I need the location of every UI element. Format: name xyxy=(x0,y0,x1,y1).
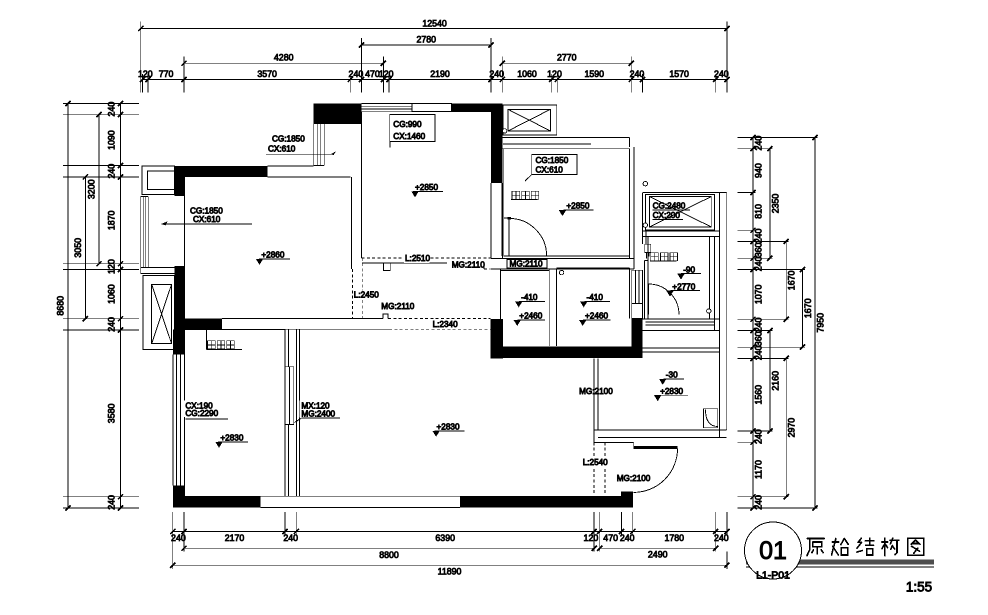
dim line left 3200 xyxy=(98,115,100,264)
wall line bath right compartment top xyxy=(557,267,630,269)
dim line left 8680 xyxy=(67,104,69,509)
door room90 xyxy=(648,284,650,315)
svg-text:240: 240 xyxy=(754,228,764,243)
wall line room30 top a xyxy=(642,347,720,349)
svg-text:240: 240 xyxy=(630,69,645,79)
svg-text:-410: -410 xyxy=(521,293,538,302)
svg-text:240: 240 xyxy=(714,69,729,79)
window opening box bathroom east xyxy=(632,303,643,318)
svg-text:6390: 6390 xyxy=(435,533,455,543)
title bar xyxy=(746,560,934,565)
svg-text:2490: 2490 xyxy=(648,550,668,560)
dashed opening L:2340 b xyxy=(389,328,490,330)
label insulation baowenceng room90 xyxy=(651,253,659,261)
wall line living west b xyxy=(298,329,300,496)
svg-text:8680: 8680 xyxy=(56,296,66,316)
wall line bedroom2 east b lower xyxy=(288,424,290,496)
dim line top 4280 xyxy=(184,62,383,64)
svg-text:120: 120 xyxy=(379,69,394,79)
shaft box left xyxy=(143,276,175,350)
wall line platform south b xyxy=(643,236,720,238)
dim line bottom small xyxy=(173,531,727,533)
wall line bedroom3 south a xyxy=(491,257,634,259)
wall step kitchen south right xyxy=(483,262,485,269)
svg-text:CG:1850: CG:1850 xyxy=(272,135,305,144)
svg-text:L:2450: L:2450 xyxy=(354,290,379,299)
svg-text:3570: 3570 xyxy=(257,69,277,79)
wall bathroom south black xyxy=(491,346,643,358)
wall line bedroom3 top inner xyxy=(502,148,629,150)
svg-text:1670: 1670 xyxy=(803,298,813,318)
wall south black right xyxy=(460,496,633,507)
svg-text:240: 240 xyxy=(754,345,764,360)
svg-text:2350: 2350 xyxy=(770,194,780,214)
dashed corridor L:2450 a xyxy=(351,269,353,318)
wall bedroom1 south black xyxy=(175,318,222,329)
point marker xyxy=(707,309,711,313)
wall bathroom east black xyxy=(632,319,643,359)
svg-text:3200: 3200 xyxy=(87,179,97,199)
wall line kitchen south stub xyxy=(362,262,447,264)
svg-text:2190: 2190 xyxy=(430,69,450,79)
svg-text:470: 470 xyxy=(603,533,618,543)
svg-text:240: 240 xyxy=(754,495,764,510)
wall line corridor south xyxy=(185,328,390,330)
door opening box MG:2110 xyxy=(507,260,547,268)
wall line room30 top b xyxy=(642,351,720,353)
wall line bedroom3 south b xyxy=(491,268,634,270)
wall line bedroom3 east outer xyxy=(633,147,635,269)
svg-text:240: 240 xyxy=(754,136,764,151)
svg-text:240: 240 xyxy=(754,256,764,271)
dashed kitchen south opening L:2510 xyxy=(362,257,492,259)
dim line top 2780 xyxy=(362,44,492,46)
wall line room90 west inner xyxy=(647,237,649,319)
svg-text:3580: 3580 xyxy=(107,404,117,424)
svg-text:01: 01 xyxy=(759,537,787,565)
dim line top small xyxy=(143,79,727,81)
wall line bedroom1 top outer cont xyxy=(268,165,314,167)
svg-text:1870: 1870 xyxy=(107,210,117,230)
dashed kitchen south opening b xyxy=(484,268,491,270)
svg-text:CX:610: CX:610 xyxy=(193,215,221,224)
wall bedroom1 top xyxy=(175,166,268,177)
wall line kitchen east pair a xyxy=(490,183,492,258)
wall line room90 south a xyxy=(642,318,719,320)
svg-text:1670: 1670 xyxy=(787,271,797,291)
label L:2340 xyxy=(432,320,457,328)
bay window box top-left xyxy=(142,166,175,194)
wall line bedroom3 south inner xyxy=(504,255,630,257)
wall line bedroom3 west inner xyxy=(503,149,505,256)
wall line bedroom1 east xyxy=(350,177,352,269)
wall line south middle top xyxy=(261,495,461,497)
point marker xyxy=(502,129,506,133)
wall line room90 east outer xyxy=(714,237,716,319)
wall line bedroom2 west sill xyxy=(184,330,186,497)
window bay west bedroom1 xyxy=(140,197,142,268)
svg-text:CG:2480: CG:2480 xyxy=(653,201,686,210)
svg-text:1780: 1780 xyxy=(664,533,684,543)
dim line right 2970 xyxy=(785,358,787,496)
svg-text:-90: -90 xyxy=(683,265,695,274)
shaft crossed rect xyxy=(152,285,172,344)
svg-text:240: 240 xyxy=(714,533,729,543)
svg-text:240: 240 xyxy=(349,69,364,79)
svg-text:120: 120 xyxy=(584,533,599,543)
wall line kitchen east pair b xyxy=(501,183,503,258)
label MX:120 MG:2400 xyxy=(300,401,341,418)
svg-text:2780: 2780 xyxy=(417,35,437,45)
svg-text:1060: 1060 xyxy=(107,284,117,304)
svg-text:1:55: 1:55 xyxy=(906,580,932,595)
svg-text:1170: 1170 xyxy=(754,460,764,479)
window kitchen top xyxy=(362,103,413,105)
svg-text:1090: 1090 xyxy=(107,130,117,150)
svg-text:+2830: +2830 xyxy=(220,434,243,443)
label L:2540 xyxy=(582,458,607,466)
svg-text:2770: 2770 xyxy=(557,52,577,62)
dashed opening L:2340 a xyxy=(388,317,491,319)
wall kitchen top-left corner xyxy=(314,104,362,125)
svg-text:770: 770 xyxy=(159,69,174,79)
wall south black left xyxy=(173,496,261,507)
entry door jamb v xyxy=(633,442,635,446)
platform crossed box CG:2480 xyxy=(646,194,715,230)
wall line bath left compartment top xyxy=(501,270,550,272)
wall entry step xyxy=(621,491,633,496)
door bedroom3 xyxy=(504,218,509,256)
window opening box kitchen top xyxy=(412,104,452,112)
door jamb icon room90 west xyxy=(645,244,651,252)
svg-text:1590: 1590 xyxy=(585,69,605,79)
svg-text:L1-P01: L1-P01 xyxy=(756,570,790,582)
window bathroom east xyxy=(631,270,633,303)
wall line kitchen top inner xyxy=(362,111,492,113)
svg-text:CG:2290: CG:2290 xyxy=(185,409,218,418)
point marker xyxy=(559,270,563,274)
svg-text:810: 810 xyxy=(754,204,764,219)
svg-text:240: 240 xyxy=(754,429,764,444)
svg-text:12540: 12540 xyxy=(422,18,447,28)
svg-text:120: 120 xyxy=(547,69,562,79)
wall line bedroom1 west inner/sill xyxy=(184,177,186,318)
svg-text:+2850: +2850 xyxy=(415,183,438,192)
svg-text:+2830: +2830 xyxy=(437,422,460,431)
corridor dashes entry L:2540 xyxy=(593,442,595,495)
svg-text:240: 240 xyxy=(107,495,117,510)
svg-text:11890: 11890 xyxy=(438,566,462,576)
dim line bottom 8800 xyxy=(184,547,594,549)
point marker xyxy=(643,182,647,186)
wall line bath divider a xyxy=(548,268,550,346)
window kitchen west xyxy=(313,124,315,166)
wall line platform west b xyxy=(645,231,647,244)
svg-text:2160: 2160 xyxy=(770,371,780,391)
bay window box bedroom3 xyxy=(503,105,557,135)
wall bedroom1 west upper xyxy=(175,177,185,196)
wall line platform west xyxy=(642,192,644,244)
svg-text:CG:990: CG:990 xyxy=(393,120,422,129)
window bedroom2 west xyxy=(172,355,174,486)
svg-text:MG:2110: MG:2110 xyxy=(510,259,544,268)
wall line room30 west a xyxy=(593,358,595,442)
wall line bedroom3 top outer right xyxy=(557,137,630,139)
wall line band A bottom xyxy=(598,437,727,439)
svg-text:120: 120 xyxy=(138,69,153,79)
wall line corridor north xyxy=(222,317,383,319)
wall line bedroom2 east a xyxy=(284,330,286,497)
svg-text:240: 240 xyxy=(283,533,298,543)
dim line bottom 2490 xyxy=(600,547,716,549)
wall bedroom2 west bottom corner xyxy=(173,486,184,498)
svg-text:1060: 1060 xyxy=(517,69,537,79)
dim line right 7950 xyxy=(814,138,816,509)
wall line room90 stub xyxy=(645,260,648,262)
wall line room90 west outer xyxy=(644,261,646,319)
wall line bedroom3 west thick xyxy=(501,183,503,256)
dim line right small xyxy=(752,138,754,509)
svg-text:+2770: +2770 xyxy=(672,282,695,291)
label insulation baowenceng bedroom1 xyxy=(208,341,216,349)
svg-text:1070: 1070 xyxy=(754,284,764,304)
svg-text:+2460: +2460 xyxy=(519,312,542,321)
svg-text:+2460: +2460 xyxy=(585,312,608,321)
label MG:2110 kitchen xyxy=(451,261,480,269)
svg-text:240: 240 xyxy=(107,102,117,117)
svg-text:360: 360 xyxy=(754,331,764,346)
pocket door MX:120 xyxy=(285,367,294,425)
label CX:190 CG:2290 bedroom2 xyxy=(184,401,223,418)
svg-text:4280: 4280 xyxy=(274,52,294,62)
band between bay and shaft xyxy=(141,266,183,268)
wall line room90 east inner xyxy=(709,237,711,319)
dim line top 12540 xyxy=(141,28,727,30)
svg-text:470: 470 xyxy=(365,69,380,79)
dim line left small xyxy=(120,104,122,509)
dashed corridor L:2450 b xyxy=(361,258,363,319)
svg-text:-410: -410 xyxy=(587,293,604,302)
dim line bottom 11890 xyxy=(173,564,727,566)
label L:2450 xyxy=(353,291,378,299)
point marker xyxy=(643,223,647,227)
svg-text:1570: 1570 xyxy=(669,69,689,79)
wall line room90 south b xyxy=(642,330,719,332)
wall line entry jamb xyxy=(594,441,634,443)
pocket door mid line xyxy=(288,367,290,425)
svg-text:2970: 2970 xyxy=(787,418,797,438)
title text yuan shi jie gou tu xyxy=(807,538,924,556)
svg-text:L:2340: L:2340 xyxy=(433,320,458,329)
svg-text:+2830: +2830 xyxy=(660,387,683,396)
dim line top 2770 xyxy=(502,62,631,64)
dim line right 2160 xyxy=(769,331,771,432)
svg-text:240: 240 xyxy=(489,69,504,79)
svg-text:7950: 7950 xyxy=(816,313,826,333)
svg-text:L:2510: L:2510 xyxy=(405,254,430,263)
dim line right 1670b xyxy=(802,269,804,347)
svg-text:240: 240 xyxy=(754,317,764,332)
wall line east inner xyxy=(718,192,720,437)
wall line bath west inner xyxy=(500,269,502,319)
wall line room30 west b xyxy=(597,358,599,430)
wall line east outer xyxy=(726,192,728,430)
svg-text:240: 240 xyxy=(107,164,117,179)
wall line bedroom3 top outer left xyxy=(502,137,556,139)
svg-text:CX:610: CX:610 xyxy=(268,145,296,154)
wall line band A top xyxy=(594,429,727,431)
wall line platform south a xyxy=(643,230,720,232)
svg-text:CX:610: CX:610 xyxy=(536,166,564,175)
wall line bedroom2 top inner xyxy=(185,329,286,331)
wall line bedroom3 bay sill xyxy=(503,143,591,145)
svg-text:MG:2400: MG:2400 xyxy=(301,409,335,418)
wall line bedroom3 ne corner xyxy=(629,138,631,148)
wall notch corridor xyxy=(383,314,388,318)
svg-text:CX:1460: CX:1460 xyxy=(393,132,425,141)
label L:2510 xyxy=(404,254,429,262)
wall line bedroom2 east b upper xyxy=(288,330,290,367)
wall notch kitchen south xyxy=(383,263,390,271)
wall kitchen east xyxy=(491,104,502,184)
svg-text:240: 240 xyxy=(107,317,117,332)
svg-text:1560: 1560 xyxy=(754,385,764,405)
svg-text:MG:2100: MG:2100 xyxy=(579,387,613,396)
wall line bedroom1 top inner xyxy=(268,176,351,178)
svg-text:+2860: +2860 xyxy=(261,250,284,259)
svg-text:2170: 2170 xyxy=(225,533,245,543)
svg-text:CX:200: CX:200 xyxy=(653,211,681,220)
svg-text:8800: 8800 xyxy=(379,550,399,560)
wall line south middle bottom xyxy=(261,507,461,509)
dim line right 2350 xyxy=(769,149,771,259)
svg-text:L:2540: L:2540 xyxy=(583,458,608,467)
wall bathroom west black xyxy=(491,319,504,358)
svg-text:360: 360 xyxy=(754,242,764,257)
svg-text:CG:1850: CG:1850 xyxy=(536,156,569,165)
wall line bath east inner xyxy=(629,268,631,319)
wall line living west a xyxy=(295,329,297,496)
svg-text:120: 120 xyxy=(107,259,117,274)
wall line platform top xyxy=(643,191,727,193)
title circle 01 xyxy=(745,522,802,579)
corner arc box room30 xyxy=(704,409,718,428)
window rails room90 south xyxy=(646,321,715,323)
svg-text:240: 240 xyxy=(620,533,635,543)
door entry xyxy=(634,446,678,449)
wall line bedroom3 east inner xyxy=(629,149,631,259)
dim line right 1670a xyxy=(785,242,787,320)
svg-text:MG:2110: MG:2110 xyxy=(452,260,486,269)
wall bedroom2 west top corner xyxy=(173,330,184,355)
svg-text:+2850: +2850 xyxy=(566,202,589,211)
svg-text:3050: 3050 xyxy=(73,238,83,258)
wall line kitchen west inner xyxy=(361,112,363,258)
svg-text:MG:2110: MG:2110 xyxy=(381,302,415,311)
wall kitchen top right segment xyxy=(452,104,503,112)
wall bedroom1 west lower xyxy=(175,266,185,353)
dim line left 3050 xyxy=(84,177,86,319)
svg-text:940: 940 xyxy=(754,163,764,178)
label insulation baowenceng bedroom3 xyxy=(512,191,520,199)
svg-text:-30: -30 xyxy=(666,371,678,380)
wall line bath divider b xyxy=(556,268,558,346)
svg-text:MG:2100: MG:2100 xyxy=(617,474,651,483)
